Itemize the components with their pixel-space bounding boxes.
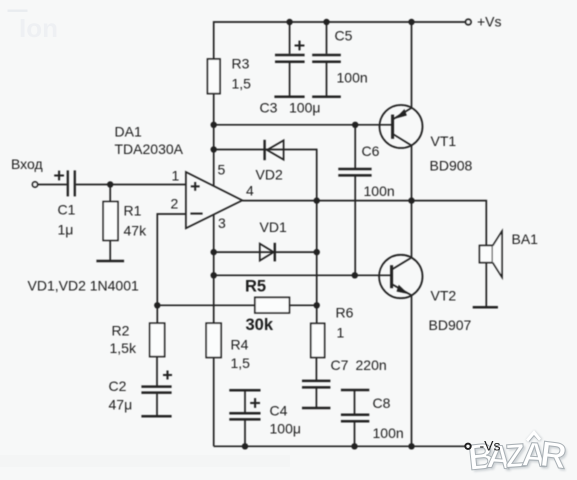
polarity plus C4 — [250, 398, 260, 408]
svg-text:100μ: 100μ — [270, 421, 301, 437]
svg-text:1,5: 1,5 — [231, 355, 251, 371]
svg-text:C6: C6 — [362, 143, 380, 159]
op-amp plus mark — [191, 182, 200, 191]
svg-text:2: 2 — [171, 196, 179, 212]
svg-text:VT2: VT2 — [431, 288, 457, 304]
op-amp DA1 triangle — [186, 172, 242, 228]
diode VD2 — [265, 140, 284, 160]
wire R5 row right — [289, 304, 316, 306]
polarity plus C1 — [54, 171, 64, 181]
node output/VD2 column — [314, 197, 320, 203]
node VT2 base row left — [211, 272, 217, 278]
svg-text:-Vs: -Vs — [480, 438, 501, 454]
svg-text:VD2: VD2 — [256, 167, 283, 183]
transistor VT1 — [380, 105, 423, 148]
svg-text:R3: R3 — [232, 56, 250, 72]
capacitor C2 plates and end bar — [141, 387, 171, 417]
wire VT1 base row — [214, 124, 393, 126]
svg-text:100μ: 100μ — [289, 100, 320, 116]
svg-text:R1: R1 — [124, 203, 142, 219]
svg-text:3: 3 — [218, 215, 226, 231]
svg-text:VD1,VD2 1N4001: VD1,VD2 1N4001 — [28, 278, 140, 294]
node C6 top — [352, 122, 358, 128]
node C6 bottom — [352, 272, 358, 278]
wire C8 upper lead — [354, 391, 356, 414]
watermark BAZAR — [466, 432, 571, 480]
wire VT2 base row — [214, 274, 392, 276]
wire VD2 row and bend down to output — [214, 150, 317, 201]
wire C2 lower lead — [156, 394, 158, 416]
wire VD2 corner to R6 column — [316, 201, 318, 324]
capacitor C3 plates and end bar — [274, 55, 304, 97]
node output/VT1 collector — [408, 197, 414, 203]
svg-text:C4: C4 — [270, 403, 288, 419]
transistor VT2 — [379, 255, 422, 298]
wire C4 to bottom rail — [244, 420, 246, 446]
node C5 top — [323, 19, 329, 25]
wire R1 top lead — [109, 185, 111, 202]
svg-text:VT1: VT1 — [431, 133, 457, 149]
wire VT2 emitter to bottom rail — [411, 295, 413, 446]
node R3/base row — [211, 122, 217, 128]
svg-text:BD907: BD907 — [429, 317, 472, 333]
wire VD1 row — [214, 251, 317, 253]
svg-text:C1: C1 — [58, 202, 76, 218]
wire speaker lower lead — [485, 263, 487, 307]
svg-text:BD908: BD908 — [430, 158, 473, 174]
wire C6 column upper — [354, 125, 356, 168]
resistor R2 — [150, 323, 165, 356]
wire C5 top lead — [326, 22, 328, 54]
svg-text:R2: R2 — [112, 323, 130, 339]
wire C8 to bottom rail — [354, 422, 356, 446]
svg-text:BA1: BA1 — [512, 231, 539, 247]
svg-text:C8: C8 — [373, 395, 391, 411]
wire R2 top lead — [156, 305, 158, 323]
capacitor C4 end bar and plates — [229, 390, 260, 419]
wire C3 top lead — [289, 22, 291, 54]
svg-text:4: 4 — [246, 183, 254, 199]
op-amp minus mark — [190, 213, 202, 215]
svg-text:R4: R4 — [231, 337, 249, 353]
wire R3 bottom to op-amp pin5 — [213, 94, 215, 186]
wire VT1 emitter to +Vs — [411, 22, 413, 108]
wire R6 to C7 — [315, 358, 317, 381]
svg-text:C3: C3 — [260, 100, 278, 116]
svg-text:1: 1 — [172, 168, 180, 184]
svg-text:VD1: VD1 — [260, 219, 287, 235]
wire VT2 collector to output row — [411, 201, 413, 258]
svg-text:1: 1 — [337, 325, 345, 341]
node VT1 emitter rail — [408, 19, 414, 25]
capacitor C7 plates and end bar — [302, 381, 330, 408]
svg-text:R5: R5 — [245, 278, 266, 296]
wire C5 lower lead — [326, 63, 328, 96]
capacitor C5 plates and end bar — [312, 55, 341, 97]
svg-text:+Vs: +Vs — [477, 14, 502, 30]
wire input to C1 — [38, 184, 67, 186]
node VD1 row left — [211, 249, 217, 255]
svg-text:Вход: Вход — [11, 156, 43, 172]
svg-text:47μ: 47μ — [109, 397, 133, 413]
svg-text:1,5: 1,5 — [232, 76, 252, 92]
svg-text:100n: 100n — [337, 70, 368, 86]
node C1/R1/pin1 — [107, 181, 113, 187]
input terminal Вход — [32, 182, 37, 187]
node C4 bottom rail — [242, 443, 248, 449]
capacitor C8 end bar and plates — [341, 390, 369, 421]
wire R4 bottom to bottom rail — [213, 358, 215, 447]
terminal +Vs — [466, 19, 471, 24]
node C3 top — [286, 19, 292, 25]
node feedback/R5 left — [154, 302, 160, 308]
node VD2 row left — [211, 146, 217, 152]
node VT2 emitter rail — [408, 443, 414, 449]
wire C6 column lower — [354, 176, 356, 275]
resistor R1 — [103, 202, 118, 241]
wire -Vs bottom rail — [214, 445, 466, 447]
svg-text:100n: 100n — [373, 425, 404, 441]
svg-text:100n: 100n — [364, 183, 395, 199]
faint scan band bottom-left — [0, 455, 290, 467]
wire R1 bottom lead — [109, 240, 111, 260]
wire C1 to op-amp pin1 — [76, 184, 186, 186]
polarity plus C2 — [163, 371, 172, 380]
svg-text:5: 5 — [218, 162, 226, 178]
speaker BA1 — [480, 231, 503, 277]
node R5 right — [314, 302, 320, 308]
terminal -Vs — [465, 444, 470, 449]
watermark dash top-left — [8, 10, 28, 12]
resistor R6 — [311, 323, 325, 357]
ground bar under BA1 — [473, 306, 498, 309]
svg-text:1,5k: 1,5k — [110, 340, 137, 356]
resistor R5 — [255, 297, 290, 313]
svg-text:TDA2030A: TDA2030A — [115, 141, 184, 157]
wire C3 lower lead — [289, 63, 291, 96]
wire C7 lower lead — [315, 388, 317, 407]
svg-text:47k: 47k — [124, 223, 148, 239]
svg-text:C2: C2 — [109, 378, 127, 394]
resistor R4 — [206, 323, 221, 357]
resistor R3 — [208, 59, 221, 94]
svg-text:220n: 220n — [356, 357, 387, 373]
node C8 bottom rail — [351, 443, 357, 449]
svg-text:Ion: Ion — [19, 13, 58, 43]
diode VD1 — [260, 243, 275, 262]
capacitor C1 plates — [68, 170, 75, 196]
ground bar under R1 — [96, 260, 124, 263]
svg-text:R: R — [538, 433, 569, 477]
wire R2 to C2 — [156, 357, 158, 386]
capacitor C6 plates — [338, 169, 371, 175]
svg-text:30k: 30k — [246, 316, 274, 334]
wire +Vs top rail — [214, 22, 466, 59]
polarity plus C3 — [295, 41, 305, 51]
svg-text:C7: C7 — [331, 357, 349, 373]
svg-text:1μ: 1μ — [58, 222, 74, 238]
wire C4 upper lead — [244, 391, 246, 412]
svg-text:C5: C5 — [335, 28, 353, 44]
wire output row to speaker bend — [242, 201, 486, 246]
wire VT1 collector to output row — [411, 146, 413, 201]
svg-text:R6: R6 — [336, 305, 354, 321]
wire op-amp pin2 to feedback column — [157, 214, 186, 305]
wire R5 row left — [157, 304, 255, 306]
wire op-amp pin3 column down to R4 — [213, 215, 215, 324]
svg-text:DA1: DA1 — [115, 124, 142, 140]
node VD1 row right — [314, 249, 320, 255]
